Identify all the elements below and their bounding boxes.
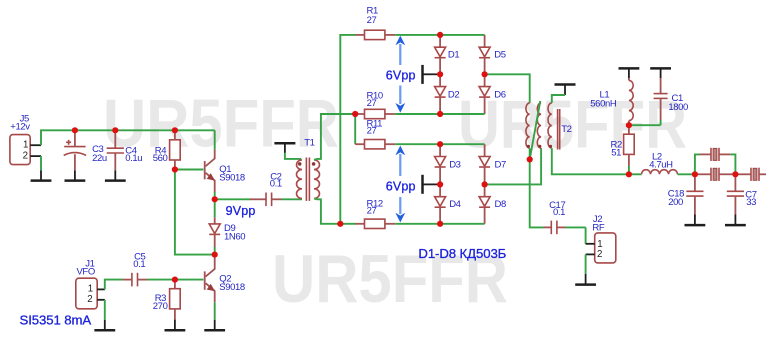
capacitor C5 xyxy=(123,251,148,286)
capacitor C2 xyxy=(250,172,282,207)
svg-text:51: 51 xyxy=(611,148,621,159)
junction 9Vpp node xyxy=(212,196,218,202)
ground T2 secondary top xyxy=(555,85,576,96)
wire J5 pin2 down xyxy=(40,156,42,170)
resistor R10 xyxy=(355,90,395,118)
junction R4 xyxy=(172,127,178,133)
ground C7 xyxy=(725,215,746,226)
junction D1 top xyxy=(437,32,443,38)
diode D4 xyxy=(435,184,461,223)
diode D8 xyxy=(479,184,506,223)
svg-text:2: 2 xyxy=(23,151,28,162)
svg-text:27: 27 xyxy=(367,98,377,109)
wire R10 to D2 xyxy=(395,113,440,115)
transformer T2 xyxy=(526,101,572,159)
capacitor C18 xyxy=(668,174,704,214)
ground L1 top xyxy=(619,68,640,78)
svg-text:D8: D8 xyxy=(495,199,506,210)
capacitor C17 xyxy=(544,200,566,234)
junction T2 center tap xyxy=(527,156,533,162)
junction D7/D8 xyxy=(482,181,488,187)
svg-text:200: 200 xyxy=(668,197,683,208)
wire R1-R12 left vertical xyxy=(340,35,355,224)
resistor R3 xyxy=(153,280,180,320)
ground C18 xyxy=(685,215,706,226)
svg-text:+12v: +12v xyxy=(10,122,30,133)
wire R12 row left xyxy=(340,223,356,225)
diode D9 xyxy=(209,199,245,254)
svg-text:1800: 1800 xyxy=(668,102,688,113)
watermark UR5FFR right xyxy=(458,87,687,163)
transistor Q2 xyxy=(205,256,245,320)
junction C3 xyxy=(72,127,78,133)
wire D3 to D7 top xyxy=(440,143,485,145)
crystal lower xyxy=(697,168,734,181)
svg-text:6Vpp: 6Vpp xyxy=(386,180,416,194)
wire D5/D6 to T2 primary top xyxy=(485,74,530,103)
capacitor C3 xyxy=(64,130,107,170)
svg-text:VFO: VFO xyxy=(77,267,95,278)
wire base node to D9 node xyxy=(175,170,215,255)
diode D2 xyxy=(435,74,460,114)
resistor R2 xyxy=(611,125,635,174)
wire C5 to Q2 base xyxy=(147,279,203,281)
svg-text:RF: RF xyxy=(592,222,604,233)
wire C17 to J2 xyxy=(566,227,586,243)
wire center tap to C17 xyxy=(530,148,544,227)
svg-text:UR5FFR: UR5FFR xyxy=(103,86,339,162)
diode D3 xyxy=(435,144,461,184)
junction D9/Q2 collector xyxy=(212,252,218,258)
junction L1/C1/R2 xyxy=(626,122,632,128)
svg-text:0.1: 0.1 xyxy=(553,207,565,218)
junction D5/D6 xyxy=(482,71,488,77)
resistor R12 xyxy=(356,198,396,228)
connector J5 xyxy=(10,113,41,164)
wire T2 secondary bottom xyxy=(552,148,629,174)
svg-text:D1: D1 xyxy=(448,49,459,60)
wire T2 secondary top xyxy=(552,95,565,103)
ground T1 top xyxy=(274,143,295,153)
svg-text:S9018: S9018 xyxy=(219,173,245,184)
svg-text:0.1u: 0.1u xyxy=(125,153,142,164)
svg-text:33: 33 xyxy=(746,197,756,208)
transformer T1 xyxy=(297,137,320,201)
crystal right xyxy=(735,168,766,181)
wire D7/D8 to T2 xyxy=(485,148,541,184)
svg-text:D4: D4 xyxy=(449,199,460,210)
svg-text:27: 27 xyxy=(367,206,377,217)
wire R12 to D4 xyxy=(395,223,440,225)
svg-text:27: 27 xyxy=(367,15,377,26)
ground J2 xyxy=(575,274,596,285)
ground probe D3/D4 xyxy=(423,175,439,194)
wire L1 to C1 bottom xyxy=(629,124,661,126)
svg-text:2: 2 xyxy=(87,294,92,305)
capacitor C7 xyxy=(727,174,757,214)
wire R11 drop xyxy=(354,114,356,144)
svg-text:1: 1 xyxy=(23,139,28,150)
watermark UR5FFR left xyxy=(103,86,339,162)
wire T1 primary top xyxy=(285,153,301,159)
wire R11 to D3 xyxy=(395,143,440,145)
svg-text:SI5351 8mA: SI5351 8mA xyxy=(20,313,92,328)
resistor R4 xyxy=(153,130,181,169)
svg-text:D1-D8 КД503Б: D1-D8 КД503Б xyxy=(418,246,506,261)
junction D3 top xyxy=(437,141,443,147)
wire base node to Q1 xyxy=(175,169,204,171)
capacitor C4 xyxy=(107,130,143,170)
connector J2 xyxy=(586,214,616,263)
svg-text:6Vpp: 6Vpp xyxy=(386,68,416,82)
svg-text:560: 560 xyxy=(153,153,168,164)
annotation SI5351 drive xyxy=(20,313,92,328)
capacitor C1 xyxy=(654,78,688,125)
svg-text:560nH: 560nH xyxy=(590,99,617,110)
resistor R1 xyxy=(356,5,396,39)
ground R3 xyxy=(165,320,186,331)
svg-text:D5: D5 xyxy=(494,49,505,60)
ground C4 xyxy=(105,170,126,180)
svg-text:4.7uH: 4.7uH xyxy=(649,160,673,171)
diode D5 xyxy=(479,35,506,74)
wire crystal upper-left riser xyxy=(695,154,700,174)
junction T1/R12 node xyxy=(337,221,343,227)
svg-text:27: 27 xyxy=(367,126,377,137)
wire J1 pin1 to C5 xyxy=(105,280,123,290)
ground C1 top xyxy=(650,68,671,78)
wire D4 to D8 bottom xyxy=(440,223,485,225)
wire T1 sec bottom to R12 xyxy=(314,199,340,224)
measure arrow 6Vpp bottom xyxy=(386,146,416,223)
junction R2 output line xyxy=(626,171,632,177)
wire C2 to T1 xyxy=(282,198,303,200)
resistor R11 xyxy=(355,118,395,148)
svg-text:9Vpp: 9Vpp xyxy=(226,204,256,218)
junction R3 node xyxy=(172,277,178,283)
svg-text:D2: D2 xyxy=(448,90,459,101)
ground C3 xyxy=(65,170,86,180)
wire D1 to D5 top xyxy=(440,34,485,36)
annotation 9Vpp xyxy=(226,204,256,218)
transistor Q1 xyxy=(205,130,245,199)
svg-text:22u: 22u xyxy=(92,153,107,164)
junction Q1 base node xyxy=(172,166,178,172)
measure arrow 6Vpp top xyxy=(386,36,416,113)
ground J1 xyxy=(94,320,115,330)
ground Q2 xyxy=(204,320,225,331)
svg-text:D7: D7 xyxy=(495,160,506,171)
wire D2 to D6 bottom xyxy=(440,113,485,115)
watermark UR5FFR bottom xyxy=(272,241,508,317)
svg-text:T1: T1 xyxy=(304,137,314,148)
connector J1 xyxy=(76,259,105,309)
svg-text:1: 1 xyxy=(88,284,93,295)
wire J2 pin2 down xyxy=(585,254,587,273)
diode D7 xyxy=(479,144,506,184)
svg-text:0.1: 0.1 xyxy=(133,259,145,270)
svg-text:2: 2 xyxy=(597,249,602,260)
svg-text:S9018: S9018 xyxy=(219,282,245,293)
wire R1 to D1 xyxy=(395,34,440,36)
ground probe D1/D2 xyxy=(423,65,439,84)
svg-text:T2: T2 xyxy=(561,124,571,135)
junction filter left xyxy=(692,171,698,177)
diode D6 xyxy=(479,74,506,114)
wire T1 sec top to R10/R11 xyxy=(314,114,355,160)
junction D2 bottom xyxy=(437,111,443,117)
wire +12V rail xyxy=(41,130,215,145)
junction D4 bottom xyxy=(437,221,443,227)
wire J1 pin2 down xyxy=(104,300,106,320)
wire 9Vpp row xyxy=(215,198,251,200)
junction D1/D2 xyxy=(437,71,443,77)
svg-text:270: 270 xyxy=(153,301,168,312)
crystal upper xyxy=(700,148,731,161)
svg-text:D3: D3 xyxy=(449,160,460,171)
junction D3/D4 xyxy=(437,181,443,187)
inductor L2 xyxy=(629,151,695,174)
diode D1 xyxy=(435,35,460,74)
junction R10/R11 node xyxy=(352,111,358,117)
ground J5 xyxy=(31,170,52,180)
junction filter right xyxy=(732,171,738,177)
wire crystal upper-right riser xyxy=(731,154,736,174)
junction C4 xyxy=(112,127,118,133)
annotation diode type xyxy=(418,246,506,261)
svg-text:D6: D6 xyxy=(494,90,505,101)
svg-text:0.1: 0.1 xyxy=(270,179,282,190)
inductor L1 xyxy=(590,78,633,125)
svg-text:1N60: 1N60 xyxy=(224,231,245,242)
